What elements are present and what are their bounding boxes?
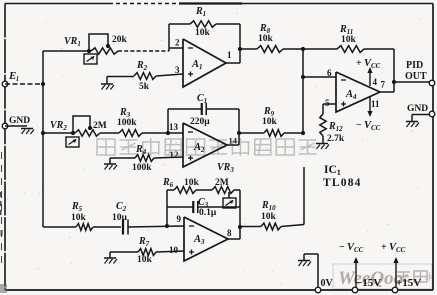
- trimmer symbol VR1: [84, 54, 97, 64]
- svg-text:10k: 10k: [184, 178, 200, 188]
- wire R4 row: [110, 157, 183, 158]
- wire R11 row: [303, 48, 394, 50]
- op-amp A3 minus mark: [189, 225, 194, 227]
- label VR2: [50, 120, 67, 132]
- node VR2 left junction: [71, 131, 75, 135]
- wire R1 row left: [169, 23, 190, 25]
- label +Vcc top: [356, 58, 381, 70]
- label GND right: [407, 104, 428, 114]
- power +Vcc arrow pin4: [367, 67, 372, 86]
- potentiometer VR2 loop wire: [73, 116, 90, 133]
- terminal PID OUT: [429, 80, 435, 86]
- label C3 value 0.1u: [199, 208, 217, 218]
- wire summing node vertical: [302, 49, 304, 133]
- potentiometer VR1 loop wire: [89, 34, 108, 51]
- node C1 junction: [166, 131, 170, 135]
- op-amp A4 minus mark: [341, 79, 346, 81]
- label pin 12: [170, 150, 180, 160]
- resistor R1 10k feedback: [190, 21, 216, 27]
- node bus-VR2 junction: [41, 131, 45, 135]
- svg-text:−: −: [339, 242, 345, 253]
- label R8: [259, 23, 271, 35]
- wire to A4 pin6: [303, 76, 336, 78]
- svg-text:PID: PID: [406, 60, 423, 71]
- svg-text:3: 3: [175, 65, 180, 75]
- wire A2 to R9: [239, 132, 264, 134]
- label GND left: [9, 116, 30, 126]
- svg-text:9: 9: [177, 214, 182, 224]
- node input bus vertical wire: [42, 51, 44, 227]
- label R8 value 10k: [258, 34, 274, 44]
- scan smudge left margin: [0, 152, 3, 268]
- label A1: [191, 59, 203, 71]
- label VR3: [217, 162, 234, 174]
- resistor R6 10k: [174, 187, 196, 194]
- svg-text:8: 8: [227, 228, 232, 238]
- wire R8 to summing node: [283, 48, 303, 50]
- power +Vcc supply arrow: [393, 257, 398, 290]
- label pin 7: [381, 80, 386, 90]
- label R7: [138, 236, 150, 248]
- svg-text:0.1μ: 0.1μ: [199, 208, 217, 218]
- label A2: [193, 142, 205, 154]
- node A3 output junction: [238, 225, 242, 229]
- op-amp A2: [183, 123, 227, 167]
- label R9: [263, 106, 275, 118]
- label R2: [136, 60, 148, 72]
- label A3: [193, 234, 205, 246]
- svg-text:20k: 20k: [112, 35, 128, 45]
- label R9 value 10k: [262, 117, 278, 127]
- op-amp A4: [336, 72, 380, 112]
- svg-text:GND: GND: [407, 104, 428, 114]
- terminal Ei: [2, 81, 8, 87]
- label R12: [328, 121, 343, 133]
- svg-text:−15V: −15V: [356, 277, 381, 289]
- label R12 value 2.7k: [327, 134, 345, 144]
- wire A1 output to R8: [240, 48, 257, 50]
- svg-text:10k: 10k: [262, 117, 278, 127]
- label R4: [135, 144, 147, 156]
- wire VR2 to R3: [100, 132, 119, 134]
- label R10: [261, 200, 276, 212]
- label 20k: [112, 35, 128, 45]
- wire R7 ground riser: [109, 252, 111, 258]
- node summing junction P: [301, 47, 305, 51]
- wire A4 output to PID OUT: [394, 81, 430, 83]
- watermark bottom-right WeeQoo box: [333, 264, 434, 289]
- wire A3 output: [228, 238, 240, 240]
- label R4 value 100k: [132, 163, 152, 173]
- resistor R7 10k: [138, 249, 156, 256]
- node A2 output junction: [237, 131, 241, 135]
- trimmer symbol VR2: [66, 137, 79, 147]
- svg-text:6: 6: [327, 68, 332, 78]
- wire C3 row right: [198, 206, 240, 208]
- svg-text:14: 14: [229, 136, 238, 146]
- node A4 output junction: [392, 80, 396, 84]
- wire A1 feedback vertical: [168, 24, 170, 51]
- label IC1: [324, 164, 341, 177]
- svg-text:12: 12: [170, 150, 180, 160]
- svg-text:+: +: [381, 242, 387, 253]
- label R10 value 10k: [261, 212, 277, 222]
- node C3 junction: [165, 224, 169, 228]
- label pin 14: [229, 136, 238, 146]
- wire C1 row left: [168, 108, 201, 110]
- label pin 11: [371, 99, 380, 109]
- wire R11 feedback vertical: [393, 49, 395, 92]
- svg-text:10: 10: [169, 245, 179, 255]
- power -Vcc supply arrow: [353, 257, 358, 290]
- svg-text:10k: 10k: [261, 212, 277, 222]
- svg-text:220μ: 220μ: [190, 117, 210, 127]
- border frame top: [5, 2, 433, 6]
- wire R6 row: [167, 189, 240, 191]
- wire bus to VR1: [43, 50, 91, 52]
- scan smudge bottom left: [0, 230, 7, 293]
- label R5 value 10k: [71, 213, 87, 223]
- resistor R10 10k: [261, 223, 281, 230]
- potentiometer VR3 2M: [212, 187, 234, 194]
- node VR2 wiper junction: [88, 126, 92, 130]
- op-amp A4 plus mark: [341, 102, 346, 107]
- border frame bottom: [5, 289, 433, 291]
- wire R2 row: [107, 74, 183, 77]
- label pin 13: [169, 122, 179, 132]
- label C2: [116, 201, 127, 213]
- wire R3 to A2 pin13: [142, 132, 183, 134]
- label R11 value 10k: [341, 35, 357, 45]
- label R1: [195, 6, 206, 18]
- wire A1 output feedback vertical: [239, 24, 241, 63]
- op-amp A3 plus mark: [189, 250, 194, 255]
- label R3: [119, 107, 131, 119]
- terminal -15V: [352, 287, 358, 293]
- wire R12 to ground: [322, 136, 324, 143]
- wire 0V vertical: [317, 254, 319, 290]
- op-amp A1 minus mark: [188, 47, 193, 49]
- wire R4 ground riser: [109, 158, 111, 164]
- wire VR3 wiper stub: [228, 192, 230, 198]
- svg-text:GND: GND: [9, 116, 30, 126]
- wire R10 to D vertical: [281, 225, 304, 227]
- wire 0V to ground: [304, 254, 318, 260]
- wire R5 to C2: [93, 226, 121, 228]
- terminal GND left: [2, 123, 8, 129]
- label C2 value 10u: [112, 213, 128, 223]
- resistor R12 2.7k: [320, 114, 326, 136]
- label R3 value 100k: [117, 118, 137, 128]
- label pin 6: [327, 68, 332, 78]
- svg-text:10k: 10k: [195, 28, 211, 38]
- wire GND right: [412, 115, 430, 122]
- potentiometer VR1 20k: [91, 48, 118, 54]
- label R1 value 10k: [195, 28, 211, 38]
- ground symbol left: [21, 129, 34, 135]
- svg-text:2M: 2M: [93, 121, 107, 131]
- wire A3 output vertical: [239, 190, 241, 239]
- node VR1 wiper junction: [106, 44, 110, 48]
- trimmer symbol VR3: [223, 198, 236, 208]
- resistor R8 10k: [257, 46, 283, 53]
- border frame left: [4, 4, 6, 291]
- svg-text:TL084: TL084: [323, 177, 362, 189]
- wire GND left: [5, 125, 27, 127]
- label PID OUT: [405, 60, 427, 82]
- wire R9 to summing node: [284, 132, 303, 134]
- node summing junction pin6: [301, 75, 305, 79]
- svg-text:10k: 10k: [341, 35, 357, 45]
- svg-text:OUT: OUT: [405, 71, 427, 82]
- svg-text:+15V: +15V: [396, 277, 421, 289]
- svg-text:100k: 100k: [132, 163, 152, 173]
- label VR2 value 2M: [93, 121, 107, 131]
- terminal GND right: [429, 111, 435, 117]
- label R2 value 5k: [139, 82, 150, 92]
- node A1 output junction: [238, 47, 242, 51]
- power -Vcc arrow pin11: [367, 97, 372, 117]
- terminal 0V: [315, 287, 321, 293]
- capacitor C2 10u: [123, 220, 128, 235]
- svg-text:+: +: [356, 58, 362, 69]
- label R6: [162, 177, 174, 189]
- svg-text:1: 1: [227, 50, 232, 60]
- label VR3 value 2M: [215, 178, 229, 188]
- label R5: [71, 201, 83, 213]
- label pin 3: [175, 65, 180, 75]
- watermark center gray CJK text: [97, 138, 317, 156]
- label A4: [345, 89, 357, 101]
- wire Ei to input bus: [5, 83, 43, 85]
- resistor R11 10k: [337, 46, 364, 53]
- label C1: [197, 93, 207, 105]
- wire C3 row left: [167, 206, 193, 208]
- wire R2 ground riser: [106, 77, 108, 85]
- resistor R2 5k: [134, 73, 156, 80]
- node VR1 left junction: [87, 49, 91, 53]
- label R11: [339, 24, 353, 36]
- svg-text:4: 4: [373, 77, 378, 87]
- label +Vcc supply: [381, 242, 406, 254]
- label 0V: [321, 278, 334, 289]
- label TL084: [323, 177, 362, 189]
- svg-text:2.7k: 2.7k: [327, 134, 345, 144]
- label pin 5: [325, 98, 330, 108]
- label +15V: [396, 277, 421, 289]
- svg-text:−: −: [356, 120, 362, 131]
- wire C2 to A3 pin9: [128, 226, 184, 227]
- potentiometer VR2 2M: [75, 130, 100, 136]
- svg-text:10k: 10k: [258, 34, 274, 44]
- label C3: [198, 197, 209, 209]
- node summing junction I: [301, 131, 305, 135]
- resistor R5 10k: [76, 224, 93, 231]
- border frame right: [432, 4, 434, 291]
- label pin 9: [177, 214, 182, 224]
- ground symbol 0V: [298, 261, 311, 267]
- capacitor C1 220u: [202, 103, 207, 115]
- wire bus corner to R5: [43, 226, 76, 228]
- op-amp A2 minus mark: [188, 131, 193, 133]
- ground symbol R7: [104, 258, 117, 264]
- resistor R9 10k: [264, 130, 284, 137]
- svg-text:7: 7: [381, 80, 386, 90]
- label pin 10: [169, 245, 179, 255]
- wire A2 output: [227, 144, 239, 146]
- resistor R3 100k: [119, 130, 142, 137]
- op-amp A1 plus mark: [188, 72, 193, 77]
- wire A2 output vertical: [238, 109, 240, 145]
- svg-text:10k: 10k: [137, 255, 153, 265]
- label Ei: [8, 70, 19, 83]
- ground symbol R4: [104, 164, 117, 170]
- ground symbol right: [406, 122, 419, 128]
- label -Vcc supply: [339, 242, 364, 254]
- svg-text:5k: 5k: [139, 82, 150, 92]
- label pin 4: [373, 77, 378, 87]
- resistor R4 100k: [135, 155, 154, 162]
- label pin 8: [227, 228, 232, 238]
- wire R10 row left: [240, 226, 261, 228]
- op-amp A3: [184, 217, 228, 261]
- label -Vcc bottom: [356, 120, 381, 132]
- wire VR1 to A1 pin2 column: [118, 50, 169, 52]
- ground symbol R2: [101, 84, 114, 90]
- label pin 2: [175, 38, 180, 48]
- wire A1 pin2 stub: [169, 47, 183, 49]
- wire D channel vertical: [303, 167, 305, 225]
- wire A4 output: [380, 91, 394, 93]
- terminal +15V: [392, 287, 398, 293]
- label C1 value 220u: [190, 117, 210, 127]
- svg-text:100k: 100k: [117, 118, 137, 128]
- op-amp A2 plus mark: [188, 156, 193, 161]
- wire C1 row right: [207, 108, 239, 110]
- label pin 1: [227, 50, 232, 60]
- svg-text:5: 5: [325, 98, 330, 108]
- label VR1: [64, 36, 81, 48]
- svg-text:2M: 2M: [215, 178, 229, 188]
- op-amp A1: [183, 39, 226, 87]
- svg-text:13: 13: [169, 122, 179, 132]
- wire R1 row right: [216, 23, 240, 25]
- svg-text:2: 2: [175, 38, 180, 48]
- wire A1 output: [226, 62, 240, 64]
- label -15V: [356, 277, 381, 289]
- wire A3 feedback vertical left: [166, 190, 168, 226]
- capacitor C3 0.1u: [193, 201, 198, 213]
- svg-text:0V: 0V: [321, 278, 334, 289]
- wire C1 vertical: [167, 109, 169, 133]
- label R6 value 10k: [184, 178, 200, 188]
- svg-text:11: 11: [371, 99, 380, 109]
- node Ei junction: [41, 82, 45, 86]
- wire R7 row: [110, 251, 184, 252]
- wire bus to VR2: [43, 132, 75, 134]
- svg-text:10μ: 10μ: [112, 213, 128, 223]
- ground symbol R12: [316, 144, 329, 150]
- wire A4 pin5 stub: [323, 104, 336, 114]
- label R7 value 10k: [137, 255, 153, 265]
